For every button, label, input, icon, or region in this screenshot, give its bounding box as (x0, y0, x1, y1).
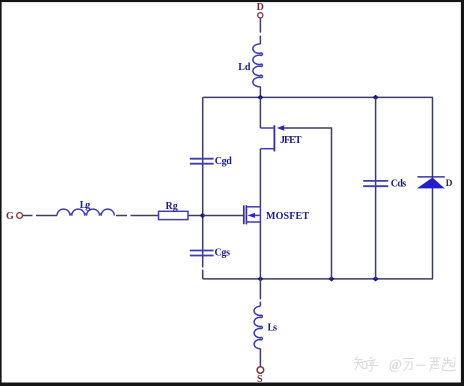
svg-text:@: @ (389, 357, 403, 373)
svg-text:D: D (257, 2, 264, 13)
wire MOSFET drain to JFET source (259, 149, 261, 207)
wire Lg to Rg (116, 215, 159, 217)
wire gate node to MOSFET gate (203, 215, 244, 217)
wire Ld to top rail (259, 87, 261, 98)
wire Rg to gate node (188, 215, 203, 217)
wire MOSFET source to bottom rail (259, 222, 261, 279)
svg-text:Lg: Lg (80, 200, 91, 211)
capacitor Cgd (190, 159, 214, 164)
inductor Ld (253, 44, 263, 87)
svg-text:G: G (6, 211, 14, 222)
svg-text:MOSFET: MOSFET (266, 211, 309, 222)
svg-text:JFET: JFET (280, 135, 302, 146)
svg-text:D: D (446, 179, 453, 189)
terminal D (257, 2, 264, 18)
junction bottom rail at source/Ls (257, 276, 263, 281)
wire JFET gate to bottom rail (284, 128, 332, 279)
svg-text:Ld: Ld (238, 62, 251, 73)
wire bottom rail to Ls (259, 279, 261, 306)
junction bottom rail at Cds (372, 276, 378, 281)
capacitor Cgs (190, 251, 214, 256)
inductor Lg (57, 209, 114, 215)
wire Cds branch vertical (375, 97, 377, 279)
junction top rail at Cds (372, 95, 378, 100)
wire G terminal to Lg (23, 215, 57, 217)
svg-text:Cgs: Cgs (215, 248, 231, 259)
wire diode branch vertical (432, 97, 434, 279)
junction bottom rail at JFET gate return (328, 276, 334, 281)
capacitor Cds (363, 181, 388, 186)
resistor Rg (159, 211, 189, 219)
svg-text:Ls: Ls (268, 323, 278, 334)
svg-text:Rg: Rg (166, 201, 178, 212)
wire Ls to S terminal (259, 349, 261, 367)
terminal S (257, 367, 264, 385)
junction top rail at Ld (257, 95, 263, 100)
diode D body diode (418, 177, 445, 188)
wire JFET drain to top rail (259, 97, 261, 128)
terminal G (6, 211, 23, 222)
junction gate node (200, 213, 206, 218)
svg-text:Cgd: Cgd (215, 156, 232, 167)
wire D terminal to Ld (259, 18, 261, 44)
transistor MOSFET (244, 205, 261, 224)
wire bottom rail (203, 278, 433, 280)
wire left branch vertical through Cgd and Cgs (202, 97, 204, 279)
svg-text:Cds: Cds (391, 178, 407, 189)
wire top rail (203, 96, 433, 98)
svg-text:S: S (257, 374, 263, 385)
transistor JFET (260, 125, 284, 151)
inductor Ls (254, 306, 262, 349)
